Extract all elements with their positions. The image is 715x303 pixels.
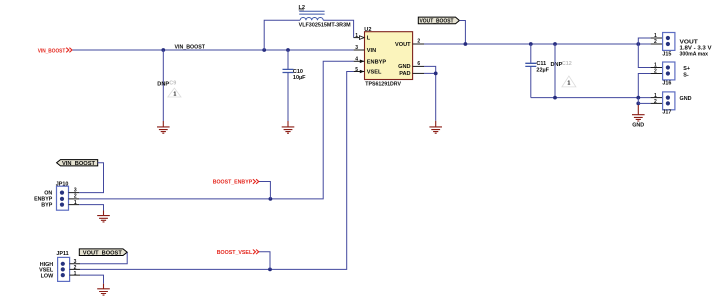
svg-text:S-: S-	[683, 72, 689, 78]
wire VOUT net horizontal	[424, 43, 651, 45]
pin PAD	[399, 71, 424, 77]
ground below U2 PAD	[429, 121, 442, 133]
svg-text:300mA max: 300mA max	[680, 51, 709, 57]
svg-text:10µF: 10µF	[293, 75, 306, 81]
svg-text:ENBYP: ENBYP	[367, 59, 387, 65]
wire C9 branch vertical	[162, 50, 164, 121]
connector J17	[651, 92, 675, 115]
wire flag to JP10 pin3	[79, 163, 103, 193]
svg-text:BOOST_VSEL: BOOST_VSEL	[217, 250, 253, 256]
connector J16	[651, 62, 675, 87]
svg-text:VIN_BOOST: VIN_BOOST	[175, 45, 206, 51]
svg-text:L2: L2	[299, 5, 306, 11]
wire to inductor L2	[264, 20, 300, 50]
port VIN_BOOST (left input)	[38, 48, 72, 55]
svg-text:LOW: LOW	[41, 273, 54, 279]
wire VIN_BOOST horizontal net	[72, 49, 353, 51]
svg-text:BYP: BYP	[41, 202, 52, 208]
pin 3 VIN	[354, 45, 377, 54]
wire C11 vertical top	[530, 44, 532, 63]
pin 4 ENBYP	[354, 57, 387, 66]
power flag VIN_BOOST at JP10	[57, 160, 98, 167]
svg-text:3: 3	[355, 45, 358, 51]
node junction C10 tap	[286, 48, 290, 52]
svg-text:2: 2	[654, 99, 657, 105]
wire C10 branch vertical bottom	[287, 73, 289, 121]
svg-text:VSEL: VSEL	[367, 70, 382, 76]
capacitor C12 DNP marker	[551, 61, 576, 87]
svg-text:2: 2	[654, 39, 657, 45]
svg-text:L: L	[367, 36, 371, 42]
node junction J15 tap	[636, 42, 640, 46]
svg-text:1: 1	[74, 271, 77, 277]
node junction L2 riser	[262, 48, 266, 52]
wire BOOST_VSEL branch	[259, 252, 270, 270]
node junction flag tap	[464, 42, 468, 46]
node junction C12 bottom	[553, 96, 557, 100]
svg-text:5: 5	[355, 67, 358, 73]
svg-text:1: 1	[173, 92, 176, 98]
svg-text:BOOST_ENBYP: BOOST_ENBYP	[213, 179, 253, 185]
wire J15 pin1 riser	[638, 38, 650, 44]
pin 2 VOUT	[395, 38, 424, 48]
svg-text:1: 1	[355, 33, 358, 39]
wire L2 to U2 pin 1	[323, 20, 353, 37]
ground below C10	[282, 121, 295, 133]
wire GND bus to J17 pin2 stub	[638, 102, 650, 104]
svg-text:VOUT_BOOST: VOUT_BOOST	[83, 251, 123, 257]
pin 6 GND	[398, 61, 424, 70]
ground GND below J17	[632, 105, 645, 128]
svg-text:2: 2	[74, 194, 77, 200]
node junction C9 tap	[161, 48, 165, 52]
pin 1 L	[354, 33, 371, 42]
node junction J17 pin2	[636, 102, 640, 106]
svg-text:J17: J17	[662, 109, 671, 115]
svg-text:VIN_BOOST: VIN_BOOST	[38, 48, 66, 54]
port BOOST_ENBYP	[213, 179, 259, 185]
svg-text:1: 1	[74, 200, 77, 206]
svg-text:22µF: 22µF	[536, 68, 549, 74]
capacitor C11	[525, 61, 549, 73]
inductor L2	[299, 5, 352, 28]
ground below JP10	[97, 211, 110, 222]
node junction C12 tap top	[553, 42, 557, 46]
JP11 side labels	[39, 262, 54, 280]
svg-text:4: 4	[355, 57, 358, 63]
node junction BOOST_VSEL tap	[268, 268, 272, 272]
svg-text:VLF302515MT-3R3M: VLF302515MT-3R3M	[299, 23, 351, 29]
svg-text:C9: C9	[169, 81, 176, 87]
svg-text:GND: GND	[632, 122, 644, 128]
wire J17 vertical	[637, 98, 639, 104]
wire flag to VOUT net	[459, 20, 465, 44]
svg-text:TPS61291DRV: TPS61291DRV	[365, 82, 401, 88]
wire VSEL net	[80, 72, 354, 270]
svg-text:VOUT_BOOST: VOUT_BOOST	[420, 19, 455, 25]
svg-text:JP11: JP11	[56, 251, 68, 257]
wire BOOST_ENBYP branch	[259, 182, 271, 199]
wire C10 branch vertical top	[287, 50, 289, 69]
net label VIN_BOOST	[175, 45, 206, 51]
JP10 side labels	[34, 191, 53, 209]
svg-text:U2: U2	[364, 27, 371, 33]
capacitor C9 DNP marker	[157, 81, 181, 98]
svg-text:GND: GND	[398, 64, 410, 70]
svg-text:C11: C11	[536, 61, 546, 67]
connector J15	[651, 33, 675, 58]
J17 label	[680, 96, 692, 102]
connector JP11	[56, 251, 80, 281]
wire flag to JP11 pin3	[80, 253, 127, 264]
node junction PAD	[434, 72, 438, 76]
power flag VOUT_BOOST top	[418, 17, 459, 25]
svg-text:VOUT: VOUT	[395, 42, 411, 48]
wire C12 vertical	[554, 44, 556, 98]
svg-text:C12: C12	[562, 61, 572, 67]
capacitor C10	[283, 69, 307, 81]
svg-text:2: 2	[417, 38, 420, 44]
svg-text:J16: J16	[662, 81, 671, 87]
svg-text:DNP: DNP	[157, 81, 169, 87]
svg-text:2: 2	[654, 69, 657, 75]
pin 5 VSEL	[354, 67, 382, 76]
node junction BOOST_ENBYP tap	[269, 197, 273, 201]
op-amp U2 TPS61291DRV body	[364, 27, 412, 88]
wire C11 vertical bottom	[530, 67, 532, 98]
connector JP10	[56, 182, 79, 211]
J15 labels	[680, 39, 712, 57]
node junction C11 tap	[529, 42, 533, 46]
wire JP11 pin1 to ground	[80, 275, 104, 284]
svg-text:J15: J15	[662, 51, 671, 57]
svg-text:PAD: PAD	[399, 71, 410, 77]
ground below JP11	[97, 284, 110, 295]
svg-text:GND: GND	[680, 96, 692, 102]
wire JP10 pin1 to ground	[79, 205, 103, 211]
wire U2 GND to PAD junction	[424, 66, 436, 73]
wire PAD to ground	[424, 73, 436, 120]
svg-text:DNP: DNP	[551, 62, 563, 68]
svg-text:1: 1	[567, 80, 570, 86]
port BOOST_VSEL	[217, 250, 259, 256]
wire J15-J16 vertical	[638, 44, 650, 68]
svg-text:C10: C10	[293, 69, 303, 75]
wire GND bus horizontal	[531, 97, 651, 99]
wire J16 pin2 to GND bus	[638, 74, 650, 98]
svg-text:VIN: VIN	[367, 48, 376, 54]
J16 labels	[683, 66, 690, 78]
node junction J17 pin1	[636, 96, 640, 100]
svg-text:S+: S+	[683, 66, 690, 72]
wire ENBYP net	[79, 61, 353, 199]
ground below C9	[157, 121, 170, 133]
power flag VOUT_BOOST at JP11	[79, 249, 127, 257]
svg-text:6: 6	[417, 61, 420, 67]
svg-text:VIN_BOOST: VIN_BOOST	[62, 161, 96, 167]
